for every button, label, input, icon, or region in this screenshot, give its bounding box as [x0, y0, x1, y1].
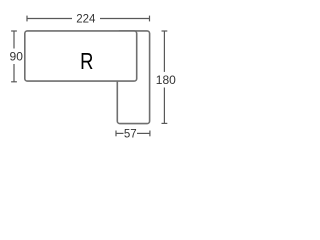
- dimension 224 line right segment: [100, 18, 150, 20]
- dimension 57 line right segment: [137, 132, 150, 134]
- dimension 90 line upper segment: [13, 31, 15, 49]
- dimension 180 bottom tick: [162, 122, 168, 124]
- leg rectangle (side return 57 x 180): [117, 31, 149, 124]
- dimension 57 right tick: [149, 131, 151, 137]
- dimension 180 line lower segment: [163, 88, 165, 124]
- svg-text:90: 90: [10, 50, 24, 64]
- dimension 90 top tick: [11, 30, 17, 32]
- dimension 224 right tick: [149, 16, 151, 22]
- svg-text:57: 57: [124, 129, 137, 141]
- svg-text:R: R: [80, 49, 93, 74]
- dimension 180 top tick: [162, 30, 168, 32]
- dimension 224 line left segment: [27, 18, 72, 20]
- dimension 57 left tick: [115, 131, 117, 137]
- dimension 90 line lower segment: [13, 64, 15, 82]
- dimension 180 line upper segment: [163, 31, 165, 72]
- main rectangle (desktop 224 x 90): [25, 31, 137, 81]
- dimension 90 bottom tick: [11, 81, 17, 83]
- svg-text:224: 224: [76, 14, 96, 26]
- dimension 57 line left segment: [116, 132, 124, 134]
- dimension 224 left tick: [26, 16, 28, 22]
- svg-text:180: 180: [156, 73, 176, 87]
